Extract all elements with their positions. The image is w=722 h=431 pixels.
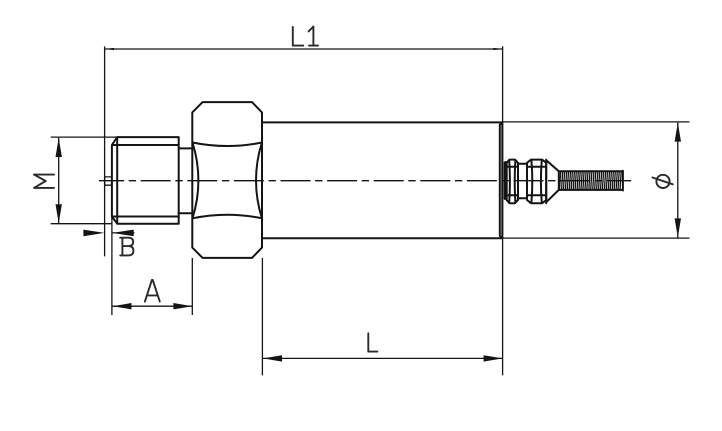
L1/L extension line right: [502, 46, 504, 375]
M extension line top: [51, 136, 118, 138]
phi arrow up: [675, 123, 681, 142]
phi arrow down: [675, 218, 681, 237]
neck between fitting and nut: [179, 148, 193, 213]
main cylindrical body: [262, 122, 502, 238]
connector hex ring 1: [507, 160, 518, 204]
hex nut bottom facet arc: [193, 215, 262, 219]
thread hatch lines: [560, 171, 622, 190]
connector flange washer: [505, 162, 507, 199]
A arrow right: [173, 303, 192, 309]
phi symbol: [656, 175, 669, 188]
text M rotated: [34, 175, 54, 188]
port tab on left face: [105, 177, 112, 185]
A dimension line: [112, 305, 192, 307]
L1 arrow right: [493, 48, 502, 50]
B left arrow: [83, 230, 104, 237]
L1 extension line left: [104, 46, 106, 256]
phi extension line bottom: [503, 237, 690, 239]
threaded stud outline: [559, 171, 623, 191]
phi extension line top: [503, 121, 690, 123]
connector spacer ring: [518, 164, 527, 198]
fitting face extension line: [111, 217, 113, 316]
B dimension stub: [113, 232, 135, 234]
L1 arrow left: [105, 48, 114, 50]
hex nut right barrel arc: [256, 143, 262, 219]
text L1: [293, 27, 318, 46]
text L: [368, 333, 377, 351]
centerline: [99, 180, 631, 182]
A arrow left: [113, 303, 132, 309]
L dimension line: [263, 357, 503, 359]
L arrow right: [484, 355, 503, 361]
hex nut left barrel arc: [193, 143, 199, 219]
L1 dimension line: [105, 48, 503, 50]
connector hex ring 2: [527, 160, 546, 204]
hex nut top facet arc: [193, 143, 262, 147]
M dimension line: [58, 138, 60, 224]
hex nut silhouette: [192, 102, 262, 258]
M arrow down: [56, 204, 62, 223]
M arrow up: [56, 138, 62, 157]
connector cone: [546, 160, 559, 204]
L extension line left (below nut): [261, 258, 263, 375]
threaded fitting body: [112, 137, 179, 224]
text A: [145, 280, 160, 302]
L arrow left: [263, 355, 282, 361]
M extension line bottom: [51, 223, 112, 225]
B right arrow: [113, 230, 134, 237]
A extension line right (nut edge extended): [191, 258, 193, 315]
text B: [120, 238, 133, 256]
phi dimension line: [677, 123, 679, 238]
